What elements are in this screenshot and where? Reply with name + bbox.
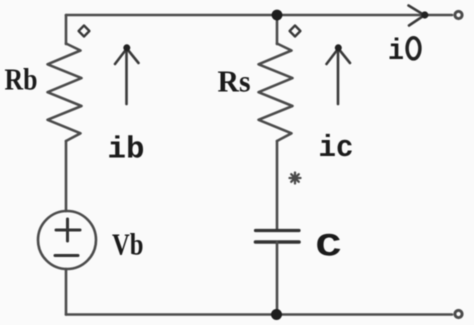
label ib <box>108 133 145 168</box>
wire middle branch top lead <box>276 15 279 44</box>
wire capacitor to bottom rail <box>276 242 279 315</box>
svg-text:Rs: Rs <box>218 64 251 99</box>
label i0 <box>388 35 420 69</box>
wire Vb to bottom rail <box>65 269 68 315</box>
open terminal bottom right <box>455 310 462 317</box>
wire bottom rail <box>66 313 452 316</box>
label C <box>316 229 342 266</box>
wire Rs to capacitor <box>276 141 279 230</box>
wire top-right stub to terminal <box>425 14 452 17</box>
junction node top <box>272 10 283 21</box>
wire top rail <box>66 14 425 17</box>
label ic <box>319 131 354 166</box>
svg-text:Vb: Vb <box>112 227 144 262</box>
label Rs <box>218 64 251 99</box>
wire Rb to Vb <box>65 141 68 211</box>
wire left branch top lead <box>65 15 68 44</box>
current arrow ic <box>327 44 351 104</box>
current arrow ib <box>115 44 139 104</box>
svg-text:C: C <box>316 229 342 266</box>
svg-text:ic: ic <box>319 131 354 166</box>
svg-text:Rb: Rb <box>5 62 38 97</box>
junction node bottom <box>271 309 282 320</box>
resistor Rs <box>259 44 293 142</box>
current arrow i0 on top rail <box>409 6 429 26</box>
open terminal top right <box>455 11 462 18</box>
capacitor C <box>256 231 300 243</box>
label Vb <box>112 227 144 262</box>
node marker diamond at Rs top <box>290 26 301 37</box>
polarity marker at capacitor top <box>290 173 301 184</box>
node marker diamond at Rb top <box>79 26 90 37</box>
voltage source Vb <box>38 211 96 269</box>
resistor Rb <box>48 44 82 142</box>
svg-text:i: i <box>388 35 404 69</box>
svg-text:ib: ib <box>108 133 145 168</box>
label Rb <box>5 62 38 97</box>
